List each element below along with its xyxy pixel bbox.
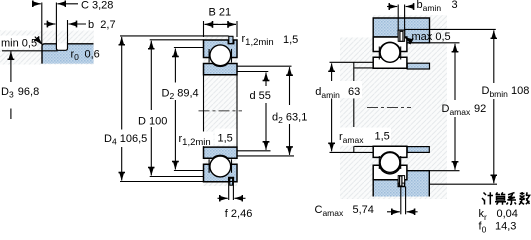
- svg-text:108: 108: [511, 85, 529, 97]
- svg-text:92: 92: [474, 103, 486, 115]
- C dimension extension lines: [41, 3, 43, 44]
- B extension lines: [203, 21, 205, 37]
- C dimension arrows: [33, 3, 41, 5]
- min 0,5 leader: [35, 37, 43, 45]
- f dimension arrows: [218, 197, 228, 199]
- top cage right: [378, 47, 380, 60]
- bottom inner ring: [204, 147, 238, 158]
- b_amin arrows: [387, 6, 397, 8]
- svg-text:D4 106,5: D4 106,5: [104, 133, 147, 147]
- max 0,5 leader: [405, 37, 412, 41]
- svg-text:63: 63: [348, 86, 360, 98]
- svg-text:1,5: 1,5: [375, 131, 390, 143]
- shaft seat lines: [354, 67, 373, 69]
- svg-text:f 2,46: f 2,46: [225, 208, 253, 220]
- bottom bearing outer ring: [373, 165, 407, 180]
- char 计: [482, 192, 493, 204]
- svg-text:3: 3: [452, 0, 458, 11]
- bottom cage: [208, 159, 210, 173]
- slab outline: [42, 44, 94, 64]
- bottom snap ring tab: [400, 176, 402, 186]
- top ball right: [380, 43, 400, 63]
- svg-text:96,8: 96,8: [18, 86, 39, 98]
- svg-text:14,3: 14,3: [495, 221, 516, 233]
- svg-text:5,74: 5,74: [353, 204, 374, 216]
- D_amax top extension: [430, 42, 460, 44]
- D_bmin bottom extension: [429, 183, 497, 185]
- C_amax extension lines: [400, 187, 402, 215]
- top snap slot white: [398, 30, 404, 41]
- char 数: [519, 192, 530, 205]
- top snap ring: [229, 36, 233, 43]
- shaft shoulder face (with gaps at texts): [353, 62, 355, 81]
- svg-text:max 0,5: max 0,5: [412, 31, 451, 43]
- groove outline: [56, 43, 67, 50]
- char 算: [495, 192, 506, 204]
- d2 dimension line: [289, 67, 291, 105]
- bottom ball: [210, 156, 231, 177]
- top bearing outer ring (outline): [373, 37, 407, 52]
- D_bmin dimension line: [493, 30, 495, 83]
- bottom outer ring: [204, 164, 238, 182]
- svg-text:C 3,28: C 3,28: [81, 0, 113, 12]
- housing top block: [373, 18, 429, 43]
- d2 extension lines: [237, 65, 292, 67]
- svg-text:D 100: D 100: [138, 116, 167, 128]
- bottom snap slot white: [398, 176, 404, 184]
- 计算系数 calculation factors block (vector strokes, CJK font unavailable): [482, 192, 530, 205]
- svg-text:1,5: 1,5: [283, 34, 298, 46]
- hatch backdrop: [340, 38, 447, 200]
- shaft shoulder surface top: [330, 61, 374, 63]
- bottom bearing inner ring: [373, 146, 407, 157]
- white behind min 0,5 text: [0, 36, 37, 49]
- housing bottom block: [373, 171, 429, 197]
- D_bmin top extension: [405, 28, 496, 30]
- shaft collar right top: [407, 63, 429, 69]
- f extension lines: [228, 182, 230, 201]
- d_amin 63: [313, 81, 362, 98]
- char 系: [507, 193, 517, 205]
- shaft side lines: [203, 75, 205, 147]
- d dimension line: [265, 73, 267, 87]
- svg-text:b: b: [88, 19, 94, 31]
- C_amax arrows: [387, 211, 400, 213]
- svg-text:1,5: 1,5: [218, 133, 233, 145]
- top snap ring tab: [400, 31, 403, 41]
- svg-text:min 0,5: min 0,5: [1, 38, 37, 50]
- top ball: [210, 45, 231, 66]
- svg-text:2,7: 2,7: [100, 19, 115, 31]
- top cage: [208, 49, 210, 63]
- shaft shoulder surface bottom: [330, 151, 374, 153]
- D dimension line: [150, 41, 152, 110]
- r_amax 1,5: [336, 128, 391, 146]
- svg-text:D2 89,4: D2 89,4: [162, 88, 199, 102]
- d_amin dimension line: [331, 63, 333, 82]
- D2 extension lines: [174, 47, 204, 49]
- b_amin extension lines: [397, 5, 399, 31]
- svg-text:d 55: d 55: [250, 90, 271, 102]
- top outer ring: [204, 40, 238, 58]
- svg-text:0,04: 0,04: [497, 208, 518, 220]
- center line right view: [367, 107, 411, 109]
- D_amax dimension line: [454, 44, 456, 100]
- housing hatch background: [0, 31, 94, 65]
- D2 dimension line: [174, 49, 176, 83]
- r 1,2min 1,5 (mid): [177, 132, 214, 147]
- center line (axis) dash-dot: [199, 110, 243, 112]
- top bearing inner ring (outline): [373, 57, 407, 68]
- D_amax bottom extension: [429, 170, 459, 172]
- D4 extension lines: [120, 35, 229, 37]
- groove (slot) in slab: [56, 43, 67, 50]
- b dimension arrows: [44, 23, 55, 25]
- hatch behind bearing column: [204, 36, 238, 186]
- D extension lines: [150, 39, 204, 41]
- B dimension line with arrows: [205, 23, 219, 25]
- svg-text:d2 63,1: d2 63,1: [272, 112, 307, 126]
- outer-ring slab cross-section: [42, 44, 94, 64]
- shaft collar right bottom: [407, 147, 429, 153]
- top inner ring: [204, 64, 238, 75]
- D4 dimension line: [121, 37, 123, 130]
- D3 extension line: [2, 50, 58, 52]
- bottom snap ring: [230, 178, 233, 185]
- svg-text:0,6: 0,6: [85, 49, 100, 61]
- svg-text:B 21: B 21: [209, 7, 232, 19]
- bottom cage right: [378, 156, 380, 169]
- d extension lines: [237, 71, 268, 73]
- bottom ball right: [380, 153, 400, 173]
- D3 dimension line: [10, 51, 12, 53]
